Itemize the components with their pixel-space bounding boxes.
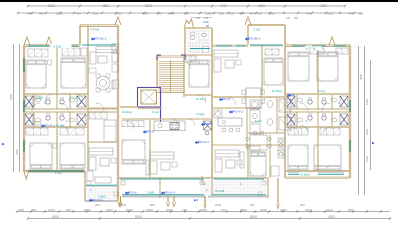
svg-text:240: 240 bbox=[286, 17, 291, 20]
svg-text:2000: 2000 bbox=[166, 208, 173, 212]
svg-text:PPD-40 ②: PPD-40 ② bbox=[92, 199, 103, 202]
svg-text:PPD-40: PPD-40 bbox=[128, 192, 137, 195]
svg-text:19.40㎡: 19.40㎡ bbox=[122, 110, 132, 114]
svg-text:600: 600 bbox=[219, 11, 224, 15]
svg-text:200: 200 bbox=[95, 203, 100, 207]
svg-text:4200: 4200 bbox=[320, 4, 327, 8]
svg-text:6.2㎡: 6.2㎡ bbox=[152, 110, 159, 114]
svg-text:4.73㎡: 4.73㎡ bbox=[90, 27, 99, 32]
svg-text:4600: 4600 bbox=[102, 4, 109, 8]
svg-text:PPD-40 ②: PPD-40 ② bbox=[232, 111, 243, 114]
svg-text:2000: 2000 bbox=[200, 208, 207, 212]
svg-text:5B: 5B bbox=[206, 25, 209, 28]
svg-text:PPD-40: PPD-40 bbox=[146, 131, 155, 134]
svg-text:3100: 3100 bbox=[326, 208, 333, 212]
svg-text:1.5㎡: 1.5㎡ bbox=[55, 171, 62, 175]
svg-text:3.2㎡: 3.2㎡ bbox=[318, 89, 325, 93]
svg-text:4200: 4200 bbox=[52, 215, 59, 219]
svg-text:10.3㎡B: 10.3㎡B bbox=[215, 189, 225, 193]
svg-text:2.2㎡: 2.2㎡ bbox=[70, 96, 77, 100]
svg-text:900: 900 bbox=[250, 203, 255, 207]
svg-text:4600: 4600 bbox=[258, 4, 265, 8]
svg-text:2000: 2000 bbox=[215, 203, 222, 207]
svg-text:4600: 4600 bbox=[359, 73, 363, 80]
svg-text:4700: 4700 bbox=[220, 4, 227, 8]
svg-text:PPD-40: PPD-40 bbox=[204, 123, 213, 126]
svg-text:2000: 2000 bbox=[142, 11, 149, 15]
svg-text:530: 530 bbox=[358, 11, 363, 15]
svg-text:200: 200 bbox=[300, 203, 305, 207]
svg-text:300: 300 bbox=[229, 11, 234, 15]
svg-text:1900: 1900 bbox=[106, 208, 113, 212]
svg-text:900: 900 bbox=[66, 208, 71, 212]
svg-text:700: 700 bbox=[221, 208, 226, 212]
svg-text:PPD-40: PPD-40 bbox=[222, 98, 231, 101]
svg-text:b 3.7㎡: b 3.7㎡ bbox=[306, 46, 316, 51]
svg-text:300: 300 bbox=[19, 208, 24, 212]
svg-text:1500: 1500 bbox=[365, 155, 369, 162]
svg-text:900: 900 bbox=[150, 203, 155, 207]
svg-text:1500: 1500 bbox=[15, 148, 19, 155]
svg-text:2000: 2000 bbox=[268, 11, 275, 15]
svg-text:400: 400 bbox=[31, 208, 36, 212]
svg-text:280: 280 bbox=[294, 17, 299, 20]
svg-text:PPD-40 ②: PPD-40 ② bbox=[164, 192, 175, 195]
svg-text:16.50㎡: 16.50㎡ bbox=[196, 97, 206, 101]
svg-text:PPD-280 ②: PPD-280 ② bbox=[94, 38, 107, 41]
svg-text:600: 600 bbox=[257, 11, 262, 15]
svg-text:2.4㎡: 2.4㎡ bbox=[36, 96, 43, 100]
svg-text:7.5㎡B: 7.5㎡B bbox=[146, 191, 154, 195]
svg-text:3100: 3100 bbox=[327, 11, 334, 15]
svg-text:8200: 8200 bbox=[250, 215, 257, 219]
svg-text:1500: 1500 bbox=[365, 98, 369, 105]
svg-text:513B: 513B bbox=[203, 21, 209, 24]
svg-text:10.84㎡: 10.84㎡ bbox=[272, 89, 282, 93]
svg-text:2000: 2000 bbox=[205, 11, 212, 15]
svg-text:1000: 1000 bbox=[48, 208, 55, 212]
svg-text:2600: 2600 bbox=[146, 208, 153, 212]
svg-text:10.2㎡: 10.2㎡ bbox=[56, 124, 64, 128]
svg-text:PPD-280 ②: PPD-280 ② bbox=[248, 38, 261, 41]
svg-text:440: 440 bbox=[39, 11, 44, 15]
svg-text:PPD: PPD bbox=[290, 94, 295, 97]
svg-text:9.10㎡: 9.10㎡ bbox=[196, 112, 204, 116]
svg-text:440: 440 bbox=[76, 11, 81, 15]
svg-text:300: 300 bbox=[249, 11, 254, 15]
svg-text:500: 500 bbox=[348, 208, 353, 212]
svg-text:6200: 6200 bbox=[48, 4, 55, 8]
svg-text:12.60㎡: 12.60㎡ bbox=[300, 173, 310, 177]
svg-text:PPD-40 ②: PPD-40 ② bbox=[44, 125, 55, 128]
svg-text:440: 440 bbox=[348, 11, 353, 15]
svg-text:4200: 4200 bbox=[328, 215, 335, 219]
svg-text:2600: 2600 bbox=[260, 208, 267, 212]
svg-text:3.7㎡: 3.7㎡ bbox=[253, 27, 260, 32]
svg-text:1560: 1560 bbox=[92, 11, 99, 15]
svg-text:8200: 8200 bbox=[135, 215, 142, 219]
svg-text:440: 440 bbox=[306, 11, 311, 15]
svg-text:6.2㎡: 6.2㎡ bbox=[255, 119, 262, 123]
svg-text:▶B: ▶B bbox=[194, 198, 198, 202]
svg-text:8200: 8200 bbox=[145, 4, 152, 8]
svg-text:6300: 6300 bbox=[9, 93, 13, 100]
svg-text:3100: 3100 bbox=[365, 128, 369, 135]
svg-text:130: 130 bbox=[182, 208, 187, 212]
svg-text:4.33㎡: 4.33㎡ bbox=[53, 45, 61, 49]
svg-text:PPD-40 ②: PPD-40 ② bbox=[198, 141, 209, 144]
